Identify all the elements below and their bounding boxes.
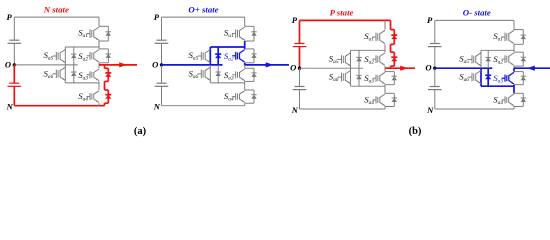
wire chain rail P to Sa1 [384,20,386,29]
diode Da5 [487,50,489,68]
wire output to Sa3 [513,68,515,71]
wire Sa6 riser [350,68,352,86]
svg-text:N: N [6,102,14,112]
svg-text:N: N [291,105,299,115]
wire Sa5 top link [65,46,99,48]
node O junction dot [298,67,301,70]
wire Sa5 riser [64,47,66,65]
wire bottom rail N [300,108,386,110]
wire O neutral [300,67,364,69]
wire node A rail [513,44,515,52]
transistor Sa4 with diode Da4 [105,89,109,91]
transistor Sa1 with diode Da1 [391,29,395,31]
wire chain rail P to Sa1 [98,17,100,26]
wire chain rail P to Sa1 [513,20,515,29]
transistor Sa1 with diode Da1 [99,25,108,27]
wire left rail lower [161,86,163,105]
svg-text:O: O [5,59,11,69]
wire top rail P [300,19,391,21]
wire left rail mid-upper [161,43,163,65]
wire Sa6 bottom link [210,82,244,84]
wire node A rail [98,41,100,49]
node O junction dot [160,63,163,66]
wire Sa2 to output [513,66,515,68]
svg-text:(b): (b) [409,126,422,137]
wire node B rail [98,81,100,90]
wire Sa4 to N rail [244,103,246,106]
current direction arrow [400,66,408,71]
wire left rail mid-upper [13,43,15,65]
wire Sa4 to N rail [98,103,100,106]
svg-text:O: O [290,63,296,73]
capacitor Cdc2 [157,82,167,84]
wire node B rail [244,81,246,90]
wire Sa2 to output [244,63,246,65]
transistor Sa4 with diode Da4 [245,89,254,91]
wire node A rail [244,41,246,49]
transistor Sa5 [205,50,210,54]
wire Sa5 top link [210,46,244,48]
svg-text:P: P [427,15,433,25]
svg-text:O- state: O- state [463,8,491,18]
wire left rail mid-lower [161,65,163,83]
wire Sa6 riser [64,65,66,83]
capacitor Cdc1 [295,43,305,45]
transistor Sa2 with diode Da2 [99,48,108,50]
wire top rail P [162,16,245,18]
svg-text:P: P [7,12,13,22]
wire highlighted Sa2 to output [390,66,392,68]
node O junction dot [433,67,436,70]
wire Sa5 riser [480,50,482,68]
transistor Sa1 with diode Da1 [245,25,254,27]
wire Sa6 riser [480,68,482,86]
wire highlighted node B [104,81,106,90]
current direction arrow [527,66,535,71]
svg-text:N: N [153,102,161,112]
wire output phase (O-) [514,67,550,69]
diode Da5 [217,47,219,65]
transistor Sa3 with diode Da3 [105,67,109,69]
transistor Sa5 [345,53,350,57]
wire left rail mid-upper [434,47,436,69]
wire top rail P [14,16,99,18]
wire Sa6 bottom link [481,85,514,87]
svg-text:O+ state: O+ state [188,4,218,14]
transistor Sa6 [60,67,65,71]
transistor Sa3 with diode Da3 [245,67,254,69]
wire left rail upper [161,17,163,40]
wire O neutral [162,64,223,66]
wire left rail upper [13,17,15,40]
wire Sa4 to N rail [513,107,515,110]
wire left rail lower [299,90,301,109]
capacitor Cdc1 [9,39,19,41]
diode Da6 [73,65,75,83]
svg-text:O: O [425,63,431,73]
diode Da5 [73,47,75,65]
wire left rail lower [13,86,15,105]
wire left rail mid-lower [299,68,301,86]
transistor Sa2 with diode Da2 [245,48,254,50]
capacitor Cdc2 [295,86,305,88]
capacitor Cdc2 [9,82,19,84]
wire left rail lower [434,90,436,109]
diode Da5 [358,50,360,68]
wire O neutral [435,67,493,69]
svg-text:O: O [152,59,158,69]
wire Sa6 bottom link [65,82,99,84]
wire Sa5 riser [209,47,211,65]
wire node B rail [384,85,386,94]
node O junction dot [13,63,16,66]
diode Da6 [487,68,489,86]
wire Sa6 riser [209,65,211,83]
svg-text:N: N [426,105,434,115]
current direction arrow [119,62,127,67]
wire Sa2 to output [98,63,100,65]
transistor Sa3 with diode Da3 [514,71,523,73]
transistor Sa1 with diode Da1 [514,29,523,31]
transistor Sa4 with diode Da4 [514,92,523,94]
transistor Sa2 with diode Da2 [514,51,523,53]
current direction arrow [266,62,274,67]
wire left rail mid-lower [13,65,15,83]
wire O neutral [14,64,78,66]
diode Da6 [358,68,360,86]
wire left rail upper [299,20,301,43]
wire Sa5 riser [350,50,352,68]
wire bottom rail N [14,105,104,107]
wire output phase (N) [99,64,137,66]
wire bottom rail N [162,105,245,107]
transistor Sa4 with diode Da4 [385,92,394,94]
wire Sa5 top link [351,49,386,51]
wire bottom rail N [435,108,514,110]
transistor Sa3 with diode Da3 [385,71,394,73]
wire left rail mid-lower [434,68,436,86]
wire output phase (O+) [245,64,289,66]
capacitor Cdc2 [430,86,440,88]
wire left rail upper [434,20,436,43]
svg-text:P: P [154,12,160,22]
svg-text:N state: N state [43,4,69,14]
wire node B rail [513,85,515,94]
wire Sa2 to output [384,66,386,68]
transistor Sa5 [60,50,65,54]
transistor Sa6 [205,67,210,71]
capacitor Cdc1 [430,43,440,45]
wire node A rail [384,44,386,52]
wire left rail mid-upper [299,47,301,69]
wire output to Sa3 [244,65,246,68]
wire highlighted node A [390,44,392,52]
wire Sa4 to N rail [384,107,386,110]
diode Da6 [217,65,219,83]
svg-text:(a): (a) [134,126,147,137]
wire top rail P [435,19,514,21]
wire chain rail P to Sa1 [244,17,246,26]
wire output to Sa3 [384,68,386,71]
wire Sa6 bottom link [351,85,386,87]
wire highlighted P drop [390,20,392,29]
transistor Sa2 with diode Da2 [391,51,395,53]
transistor Sa6 [476,71,481,75]
transistor Sa5 [476,53,481,57]
wire Sa5 top link [481,49,514,51]
wire output phase (P) [385,67,415,69]
svg-text:P: P [292,15,298,25]
svg-text:P state: P state [330,8,354,18]
wire highlighted Sa4 to N [104,103,106,106]
transistor Sa6 [345,71,350,75]
wire output to Sa3 [98,65,100,68]
capacitor Cdc1 [157,39,167,41]
wire highlighted N-path riser [104,65,106,68]
